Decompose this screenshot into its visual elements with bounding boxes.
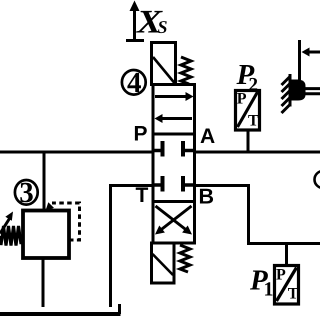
wire: T port return line: [111, 186, 155, 308]
svg-text:P: P: [134, 123, 148, 146]
valve U4 center position blocked port T: [154, 176, 163, 192]
relief valve V3 adjust arrow: [0, 212, 13, 234]
wire: gauge P1 stem: [285, 244, 288, 267]
relief valve V3 pilot line (dashed): [46, 202, 80, 240]
wire: main pressure line left (P side): [0, 151, 154, 154]
svg-text:4: 4: [127, 67, 142, 99]
svg-text:T: T: [136, 184, 149, 207]
solenoid a of valve U4: [152, 43, 176, 85]
valve U4 position 1 arrows: [155, 92, 194, 123]
callout 3: [15, 177, 38, 209]
gauge P2 box: [236, 91, 260, 131]
wire: gauge P2 stem: [247, 130, 250, 152]
svg-text:1: 1: [264, 279, 274, 301]
svg-text:T: T: [248, 113, 259, 130]
arrow: force arrow to wall: [302, 48, 320, 57]
arrow Xs: spool displacement arrow: [126, 1, 144, 42]
svg-text:P: P: [276, 267, 286, 284]
port label B: [199, 185, 215, 209]
wire: relief valve drain: [42, 258, 45, 307]
svg-text:P: P: [237, 91, 247, 108]
gauge P1 box: [275, 266, 299, 305]
solenoid b of valve U4: [152, 243, 175, 283]
piston rod double line: [303, 89, 320, 94]
wire: relief valve inlet branch: [43, 152, 46, 211]
wire: tank line bottom: [0, 304, 121, 314]
callout circle (cropped at right edge): [315, 171, 320, 188]
relief valve V3 spring: [0, 226, 23, 246]
piston stop against wall: [291, 80, 306, 101]
valve U4 position 2 crossed arrows: [155, 206, 192, 235]
valve U4 center position blocked port A: [183, 141, 194, 157]
svg-text:3: 3: [19, 177, 34, 209]
port label T: [136, 184, 149, 207]
valve U4 center position blocked port P: [154, 141, 163, 157]
wire: B port line to P1: [194, 186, 320, 244]
callout 4: [122, 67, 146, 99]
label Xs: [136, 5, 168, 41]
wall (fixed support): [282, 74, 291, 113]
label P2: [236, 59, 259, 96]
wire: position reference line at wall: [298, 40, 301, 81]
valve U4 body: [153, 85, 195, 244]
svg-text:T: T: [288, 285, 299, 302]
spring b of valve U4: [180, 245, 190, 272]
label P1: [249, 265, 274, 301]
valve U4 center position blocked port B: [183, 176, 194, 192]
svg-text:S: S: [158, 17, 168, 37]
port label A: [200, 125, 215, 148]
spring a of valve U4: [181, 57, 191, 84]
svg-text:A: A: [200, 125, 215, 148]
port label P: [134, 123, 148, 146]
relief valve V3 body: [23, 211, 69, 259]
svg-text:B: B: [199, 185, 215, 209]
svg-text:2: 2: [249, 75, 259, 96]
wire: main line right (A side): [194, 151, 320, 154]
